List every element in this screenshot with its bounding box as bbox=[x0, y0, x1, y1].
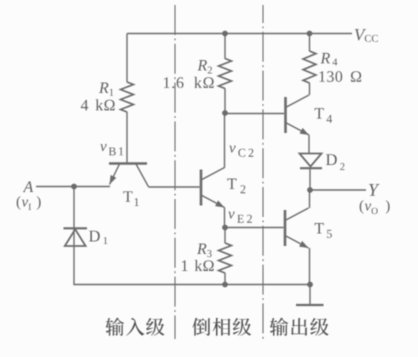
resistor R1 label bbox=[99, 83, 113, 96]
wire T1 collector to T2 base bbox=[149, 186, 200, 188]
wire input A bbox=[36, 186, 110, 188]
node output Y bbox=[307, 187, 313, 193]
transistor T5 label bbox=[315, 223, 332, 238]
resistor R3 bbox=[219, 243, 232, 273]
wire D2 to output node bbox=[309, 168, 311, 190]
resistor R3 label bbox=[197, 244, 212, 258]
node vC2 label bbox=[229, 146, 253, 157]
resistor R1 bbox=[121, 82, 134, 112]
node ground junction bbox=[307, 282, 313, 288]
wire T5 collector up to output node bbox=[309, 190, 311, 208]
stage label 输入级 (input stage) bbox=[105, 318, 164, 336]
R2 value 1.6 kΩ bbox=[164, 77, 214, 88]
input terminal A label bbox=[23, 181, 34, 192]
transistor T4 bbox=[284, 97, 287, 133]
transistor T4 label bbox=[315, 108, 333, 123]
node vE2 bbox=[222, 225, 228, 231]
input (vI) label bbox=[17, 196, 21, 210]
wire D1 to bottom rail bbox=[74, 229, 225, 285]
output terminal Y label bbox=[369, 184, 380, 196]
wire VCC rail bbox=[127, 33, 352, 35]
stage separator dashed line 2 bbox=[262, 5, 264, 339]
wire node down to T2 collector bbox=[224, 113, 226, 168]
diode D2 label bbox=[326, 154, 344, 170]
wire node to T4 base bbox=[225, 113, 284, 115]
node vE2 label bbox=[228, 212, 252, 223]
node rail R4 junction bbox=[307, 31, 313, 37]
node bottom R3 bbox=[222, 282, 228, 288]
node rail R2 bbox=[222, 31, 228, 37]
R3 value 1 kΩ bbox=[182, 260, 214, 271]
net VCC label bbox=[355, 29, 378, 42]
diode D2 bbox=[300, 154, 322, 167]
wire R2 to node vC2 bbox=[224, 88, 226, 113]
R1 value 4 kΩ bbox=[81, 99, 115, 110]
wire left VCC drop to R1 bbox=[126, 34, 128, 83]
transistor T5 bbox=[284, 210, 287, 246]
stage separator dashed line 1 bbox=[174, 5, 176, 339]
node vC2 junction bbox=[222, 110, 228, 116]
transistor T1 label bbox=[123, 191, 138, 206]
wire T4 emitter down to D2 bbox=[308, 135, 310, 153]
resistor R2 label bbox=[197, 60, 212, 73]
stage label 倒相级 (phase splitter stage) bbox=[192, 318, 251, 336]
wire R1 to T1 base bbox=[126, 112, 128, 163]
wire rail to R4 bbox=[309, 34, 311, 52]
resistor R4 label bbox=[320, 53, 337, 65]
wire vE2 to T5 base bbox=[225, 227, 284, 229]
resistor R2 bbox=[219, 59, 232, 89]
wire R3 to bottom rail bbox=[224, 273, 226, 285]
transistor T2 bbox=[200, 170, 203, 206]
wire input node down to D1 bbox=[73, 187, 75, 229]
R4 value 130 Ω bbox=[319, 71, 361, 82]
transistor T1 bbox=[109, 162, 147, 165]
wire R4 to T4 collector bbox=[309, 83, 311, 95]
output (vO) label bbox=[360, 200, 364, 214]
wire T5 emitter down to ground node bbox=[309, 248, 311, 285]
diode D1 bbox=[64, 227, 88, 229]
wire vE2 down to R3 bbox=[224, 228, 226, 244]
ground bbox=[309, 285, 311, 305]
diode D1 label bbox=[89, 231, 107, 244]
stage label 输出级 (output stage) bbox=[270, 318, 329, 336]
node vB1 label bbox=[100, 144, 123, 155]
wire bottom rail right bbox=[225, 284, 310, 286]
transistor T2 label bbox=[227, 179, 245, 194]
node input junction bbox=[71, 184, 77, 190]
wire output Y bbox=[310, 189, 366, 191]
wire R2 branch from rail bbox=[224, 34, 226, 59]
resistor R4 bbox=[303, 51, 316, 83]
wire T2 emitter to node vE2 bbox=[224, 208, 226, 228]
